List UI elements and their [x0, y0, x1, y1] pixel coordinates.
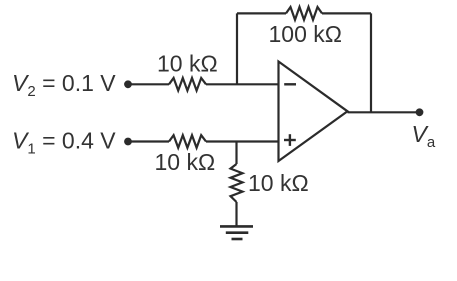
svg-text:V2 = 0.1 V: V2 = 0.1 V — [12, 70, 116, 100]
svg-text:10 kΩ: 10 kΩ — [248, 170, 309, 196]
svg-text:10 kΩ: 10 kΩ — [157, 51, 218, 77]
op-amp plus input sign — [284, 134, 296, 146]
resistor R4 10 kOhm to ground — [231, 164, 243, 202]
wire inverting input — [128, 83, 169, 85]
op-amp U1 — [279, 62, 348, 162]
wire junction to ground resistor — [235, 142, 237, 165]
resistor R1 10 kOhm inverting input — [169, 78, 206, 91]
wire output — [348, 111, 420, 113]
node Vo output terminal — [416, 108, 424, 116]
svg-text:10 kΩ: 10 kΩ — [155, 149, 216, 175]
ground — [220, 226, 253, 239]
svg-text:Va: Va — [412, 121, 436, 151]
svg-text:100 kΩ: 100 kΩ — [269, 21, 342, 47]
wire feedback left vertical — [236, 13, 238, 84]
wire feedback right vertical — [370, 13, 372, 112]
wire non-inverting input — [128, 140, 169, 142]
wire feedback top — [237, 12, 286, 14]
resistor R3 10 kOhm non-inverting input — [169, 135, 206, 148]
resistor R2 100 kOhm feedback — [286, 7, 322, 20]
op-amp minus input sign — [284, 83, 296, 85]
node V2 input terminal — [124, 80, 132, 88]
svg-text:V1 = 0.4 V: V1 = 0.4 V — [12, 128, 116, 158]
node V1 input terminal — [124, 138, 132, 146]
